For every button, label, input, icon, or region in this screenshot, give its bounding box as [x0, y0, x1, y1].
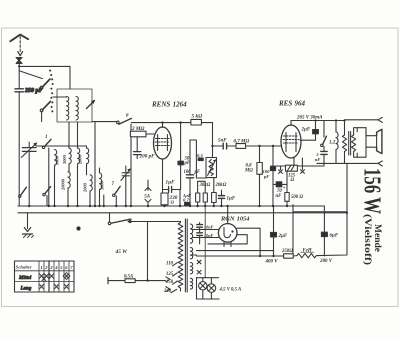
choke 1,2: [329, 121, 338, 164]
svg-text:20000: 20000: [61, 178, 66, 191]
secondary winding 2: [190, 248, 192, 259]
wire RGN output: [237, 228, 260, 256]
heater wires to RGN: [193, 230, 219, 238]
coil L-ant2: [76, 97, 78, 120]
pilot lamp 2: [207, 284, 216, 293]
capacitor 2uF anode: [301, 121, 319, 141]
svg-text:FeH: FeH: [303, 248, 312, 253]
coil L6: [83, 175, 93, 206]
wire coupling: [213, 145, 223, 147]
svg-text:2µF: 2µF: [301, 128, 311, 133]
supply rail 400V: [197, 255, 284, 257]
wire speaker top: [345, 119, 379, 121]
wire mains drop: [147, 222, 149, 281]
main bus: [18, 205, 324, 207]
lightning arrester: [16, 58, 22, 64]
svg-text:100: 100: [184, 170, 192, 175]
switch 6: [117, 114, 132, 125]
ground: [23, 213, 34, 238]
svg-text:1µF: 1µF: [227, 196, 236, 201]
capacitor 1uF cathode: [163, 179, 181, 206]
node choke top: [335, 119, 337, 121]
capacitor 100 pF: [184, 140, 201, 206]
terminal arrow top: [378, 117, 382, 122]
svg-text:2000: 2000: [78, 154, 83, 165]
wire lamp feed: [204, 206, 206, 278]
svg-text:RGN 1054: RGN 1054: [220, 216, 249, 223]
node anode junction: [179, 121, 181, 123]
mains switch: [108, 213, 180, 225]
mains cord terminal: [108, 278, 125, 284]
svg-text:45 W: 45 W: [115, 249, 129, 255]
wire g2 RES: [300, 139, 316, 141]
svg-text:Ω: Ω: [171, 200, 175, 205]
capacitor 5 nF coupling: [218, 138, 236, 149]
svg-text:nF: nF: [315, 157, 321, 162]
svg-text:250 pF: 250 pF: [24, 88, 43, 94]
svg-text:5A: 5A: [144, 194, 151, 199]
node antenna junction: [18, 65, 20, 67]
secondary terminal x2: [197, 270, 201, 274]
svg-text:0,5A: 0,5A: [124, 274, 133, 279]
svg-text:265 V 30mA: 265 V 30mA: [296, 115, 323, 120]
svg-text:1µF: 1µF: [166, 179, 176, 185]
switch tone: [321, 121, 327, 147]
terminal x right: [301, 170, 305, 174]
node trafo top: [343, 119, 345, 121]
antenna: [10, 35, 28, 56]
antenna coil box: [57, 89, 92, 122]
svg-text:pF: pF: [194, 170, 201, 175]
switch S-ant contacts: [49, 70, 53, 113]
resistor chain 30k: [196, 181, 211, 206]
svg-text:280 V: 280 V: [319, 259, 333, 264]
node anode-grid junction: [211, 145, 213, 147]
resistor 0,5 MOhm: [197, 153, 203, 160]
rheostat 125 Ohm: [286, 165, 298, 183]
wire RGN filament loop: [208, 235, 247, 244]
node output drop: [346, 212, 348, 214]
svg-text:0,5: 0,5: [197, 153, 203, 158]
wire coil links: [36, 122, 87, 148]
fuse 0,5A: [124, 274, 166, 282]
terminal arrow bottom: [378, 161, 382, 166]
wire HV return: [197, 250, 274, 252]
power transformer primary: [178, 222, 183, 292]
variable capacitor C-tune: [21, 142, 37, 206]
svg-text:nF: nF: [276, 194, 283, 199]
coil L5 20000: [61, 172, 71, 206]
svg-text:MΩ: MΩ: [244, 168, 253, 173]
bus junction dots: [28, 205, 288, 207]
tube RES 964: [281, 121, 302, 170]
secondary terminal x1: [193, 255, 201, 264]
node 100pF junction: [272, 145, 274, 147]
node tube top: [161, 121, 163, 123]
switch S-ant blade upper: [40, 79, 50, 89]
capacitor 250 pF: [15, 88, 43, 145]
resistor 0,8 MOhm: [244, 146, 262, 206]
svg-text:(Vielstoff): (Vielstoff): [362, 214, 373, 265]
capacitor 6uF: [321, 232, 338, 238]
wire bus drop: [323, 206, 325, 256]
svg-text:156 W: 156 W: [359, 168, 385, 214]
capacitor 1uF dark: [183, 193, 191, 206]
svg-text:Lang: Lang: [20, 286, 32, 291]
svg-text:+: +: [283, 186, 286, 191]
wire antenna to switch blade: [19, 71, 42, 79]
svg-text:2 MΩ: 2 MΩ: [131, 126, 145, 132]
svg-text:400 V: 400 V: [265, 260, 279, 265]
svg-text:5nF: 5nF: [218, 138, 227, 143]
svg-text:4,5 V 0,5 A: 4,5 V 0,5 A: [219, 288, 242, 293]
switch 2: [43, 187, 51, 206]
secondary winding 4: [190, 278, 192, 289]
wire speaker loop: [354, 128, 366, 135]
resistor 500 Ohm: [285, 171, 304, 206]
svg-text:1: 1: [40, 265, 42, 270]
wire antenna down lead: [18, 63, 20, 89]
switch 1: [42, 135, 51, 206]
switch S-ant blade lower: [40, 101, 50, 121]
resistor 20 kOhm: [212, 183, 227, 206]
coil L2 3000: [62, 148, 71, 172]
svg-text:RES 964: RES 964: [278, 99, 306, 107]
capacitor 70 nF electrolytic: [273, 182, 287, 199]
svg-text:500 Ω: 500 Ω: [291, 195, 303, 200]
capacitor 10nF b: [197, 227, 214, 240]
coil L4: [87, 146, 89, 175]
primary taps: [163, 262, 177, 295]
secondary winding 3: [190, 263, 192, 274]
capacitor 2uF filter: [271, 206, 288, 256]
core adjust arrow: [87, 100, 95, 109]
svg-text:0,7 MΩ: 0,7 MΩ: [234, 139, 250, 144]
resistor 5 kOhm: [191, 114, 213, 158]
wire coilbox to band switch: [92, 121, 117, 123]
svg-text:pF: pF: [263, 174, 269, 179]
capacitor 5 nF tone: [315, 146, 327, 166]
svg-text:1,2: 1,2: [329, 140, 336, 145]
coil L1 1000: [55, 150, 60, 206]
wire speaker bottom: [317, 162, 378, 164]
resistor 230: [161, 193, 178, 206]
wire link 400V: [293, 211, 347, 213]
fuse 5A: [144, 180, 151, 206]
svg-text:250Ω: 250Ω: [281, 249, 293, 254]
wire g2 network: [190, 140, 206, 178]
svg-text:Mende: Mende: [373, 224, 383, 252]
wire antenna to switch top: [19, 66, 70, 89]
wire contacts to coil: [53, 96, 67, 98]
capacitor 200 pF: [134, 137, 156, 160]
svg-text:20kΩ: 20kΩ: [215, 183, 227, 188]
svg-text:2000: 2000: [83, 182, 88, 193]
svg-text:3000: 3000: [62, 154, 67, 165]
terminal x left: [279, 166, 283, 173]
svg-text:RENS 1264: RENS 1264: [151, 101, 187, 109]
wire grid column: [130, 124, 132, 206]
svg-text:Schalter: Schalter: [16, 265, 32, 270]
pilot lamp circuit: [197, 278, 220, 299]
wire RGN top: [227, 206, 229, 224]
coil L7: [100, 168, 105, 206]
resistor 2 MOhm: [130, 126, 153, 137]
wire anode supply 265V: [291, 120, 345, 122]
svg-text:240: 240: [163, 289, 172, 294]
pilot lamp 1: [199, 282, 207, 290]
trimmer capacitor: [121, 166, 131, 206]
barretter FeH: [297, 248, 333, 264]
node mains: [146, 279, 148, 281]
svg-text:1000: 1000: [55, 155, 60, 165]
capacitor 1uF bias: [219, 190, 236, 206]
resistor 0,7 MOhm: [234, 139, 282, 148]
switch 3 lower: [19, 187, 27, 197]
wire left rail: [18, 145, 20, 206]
svg-text:0,7: 0,7: [183, 198, 189, 203]
switch 7: [112, 182, 121, 206]
svg-text:200 pF: 200 pF: [139, 154, 156, 160]
capacitor 50 pF: [178, 123, 191, 190]
voltage selector prongs: [166, 277, 170, 292]
ground bus: [18, 212, 347, 214]
svg-text:5 kΩ: 5 kΩ: [192, 114, 203, 120]
node 2uF top: [314, 119, 316, 121]
potentiometer volume: [206, 158, 217, 193]
svg-text:2µF: 2µF: [278, 234, 288, 239]
capacitor 100 pF grid: [263, 146, 276, 206]
node 0,8M junction: [258, 145, 260, 147]
output transformer: [342, 121, 355, 164]
svg-text:30kΩ: 30kΩ: [199, 183, 211, 188]
svg-text:Ω: Ω: [291, 178, 295, 183]
wire cathode RES: [276, 165, 324, 167]
ground dot: [76, 226, 80, 230]
secondary winding HV: [190, 224, 192, 243]
tube RGN 1054 rectifier: [200, 224, 237, 247]
svg-text:3000: 3000: [100, 180, 105, 191]
coil L3: [78, 148, 83, 206]
wire anode line RENS: [131, 122, 191, 124]
resistor 250 Ohm: [281, 249, 293, 258]
node 2uF rail: [272, 255, 274, 257]
switch table: [15, 261, 75, 292]
transformer core: [185, 219, 187, 292]
wire output drop: [346, 163, 348, 254]
wire column: [94, 122, 96, 206]
coil L-ant1: [67, 97, 69, 120]
svg-text:6µF: 6µF: [330, 234, 339, 239]
svg-text:1: 1: [45, 135, 48, 140]
resistor chain 2: [203, 193, 207, 206]
capacitor 10nF a: [197, 223, 214, 230]
speaker: [366, 128, 382, 158]
wire column: [103, 195, 105, 206]
svg-text:Mittel: Mittel: [18, 276, 32, 281]
tube RENS 1264: [154, 123, 172, 193]
